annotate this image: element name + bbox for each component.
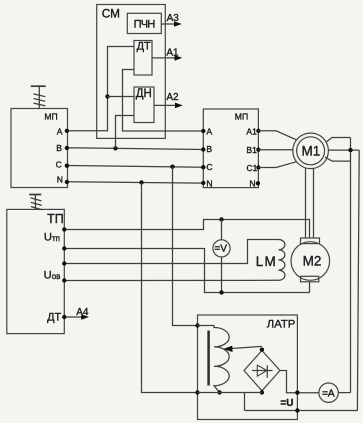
svg-text:В: В [206,144,212,154]
svg-text:А4: А4 [76,307,89,318]
wire M1 rotor vertical to ammeter [350,138,352,393]
block TP [7,209,65,333]
svg-text:N: N [206,179,212,189]
rectifier bridge diamond [244,351,280,391]
svg-text:В1: В1 [246,145,257,155]
node N terminal MP right input [201,181,205,185]
shaft coupling M1-M2 right line [313,168,315,238]
wire voltmeter lower branch [221,257,223,293]
node at voltmeter top [219,217,223,221]
node LATR input terminal upper (phase C) [195,323,199,327]
node Utp+ terminal TP [62,227,66,231]
ammeter to M1 rotor wire [338,392,350,394]
svg-text:А: А [206,126,212,136]
node Utp- terminal TP [62,246,66,250]
block SM [97,5,166,139]
wire N tap down to LATR [142,183,198,393]
wire C1 to M1 stator [258,162,296,168]
node negative bus on LATR edge [295,408,299,412]
shaft coupling M1-M2 left line [305,168,307,238]
arrow A2 [154,92,183,108]
node A terminal MP right input [201,129,205,133]
svg-text:М2: М2 [303,254,322,269]
wire bridge right vertex to ammeter [280,371,319,393]
motor M1 [293,133,329,169]
block MP right [203,109,258,188]
svg-text:ЛАТР: ЛАТР [267,318,296,330]
svg-text:=U: =U [280,398,293,409]
wire A1 to M1 stator [258,131,296,140]
arrow A3 [161,13,182,27]
node Uov+ terminal TP [62,261,66,265]
wire TP Uov+ to LM coil [64,240,278,264]
node positive output on LATR edge [295,390,299,394]
autotransformer winding [198,326,230,393]
bridge top node [260,347,264,351]
node C terminal MP right input [201,165,205,169]
node M1 rotor junction [348,148,352,152]
node N terminal MP right output [256,181,260,185]
node at voltmeter bottom [219,290,223,294]
LATR bottom wire [198,392,262,394]
svg-text:МП: МП [235,111,248,121]
svg-text:=V: =V [214,244,227,255]
svg-text:МП: МП [44,111,57,121]
voltmeter =V [213,240,230,257]
wire voltmeter upper branch [221,220,223,240]
svg-text:ДТ: ДТ [47,312,61,324]
node B tap [113,146,117,150]
motor M2 [291,242,330,281]
svg-text:А2: А2 [166,92,179,103]
LM field coil [279,240,285,281]
wire node to DN [108,96,135,98]
svg-text:С1: С1 [246,163,257,173]
svg-text:ТП: ТП [47,212,64,226]
svg-text:N: N [57,174,63,184]
node N terminal MP left [65,180,69,184]
phase C wire [67,166,203,168]
svg-text:С: С [206,162,212,172]
node A1 terminal MP right output [256,129,260,133]
svg-text:А1: А1 [166,47,179,58]
wire M1 rotor lower lead [325,157,351,161]
svg-text:LM: LM [256,254,277,269]
node B terminal MP left [65,146,69,150]
svg-text:В: В [56,143,62,153]
bridge bottom node [260,390,264,394]
node Uov- terminal TP [62,278,66,282]
arrow A1 [152,47,182,60]
block LATR [198,315,298,420]
ammeter =A [319,383,338,402]
wire TP Utp+ to M2 armature top [64,220,309,239]
svg-text:=А: =А [322,388,335,399]
wiper arrow [223,346,262,352]
wire TP Utp- to bottom bus [64,249,309,293]
phase N wire [67,182,203,183]
node A terminal MP left [65,129,69,133]
svg-text:ДН: ДН [136,88,152,100]
node C1 terminal MP right output [256,165,260,169]
wire M1 rotor upper lead [326,138,351,143]
wire C tap down to LATR [173,167,198,326]
svg-text:А1: А1 [246,126,257,136]
wire negative bus [245,410,358,412]
arrow A4 [64,307,89,320]
block DT (current sensor) [134,41,152,76]
M2 brush top [301,238,320,244]
wire B1 to M1 stator [258,149,292,151]
wire B tap to DN [116,116,135,149]
wire LM coil return to TP Uov- [64,279,278,281]
node LATR input terminal lower (neutral) [195,390,199,394]
T branch down to negative bus [244,393,246,411]
M2 brush bottom [301,276,319,282]
block DN (voltage sensor) [134,87,154,123]
node N tap [139,180,143,184]
svg-text:СМ: СМ [102,6,120,20]
phase A wire: MP left to DT [67,47,134,131]
svg-text:А3: А3 [167,13,180,24]
winding bottom node [217,390,221,394]
svg-text:С: С [56,160,62,170]
svg-text:ДТ: ДТ [137,41,151,53]
diode VD inside bridge [252,365,273,378]
node B terminal MP right input [201,147,205,151]
svg-text:ПЧН: ПЧН [134,19,156,31]
node B1 terminal MP right output [256,148,260,152]
M2 bottom drop [309,282,311,293]
svg-text:А: А [57,126,63,136]
svg-text:Uов: Uов [44,270,61,282]
node C terminal MP left [65,164,69,168]
3-phase supply symbol above MP left [31,86,46,108]
3-phase supply symbol above TP [29,195,42,210]
node on vertical to DN input [105,94,109,98]
autotransformer core [207,331,210,386]
svg-text:N: N [249,179,255,189]
phase B wire [67,148,203,150]
block PCHN [127,13,161,33]
wire M1 rotor middle lead [328,149,359,151]
node DT output terminal TP [62,315,66,319]
svg-text:Uтп: Uтп [44,231,60,243]
phase A return: DT to MP right [123,70,204,132]
wire M1 rotor vertical to negative bus [357,150,359,410]
block MP left [11,109,68,188]
node C tap [170,165,174,169]
svg-text:М1: М1 [302,144,321,159]
